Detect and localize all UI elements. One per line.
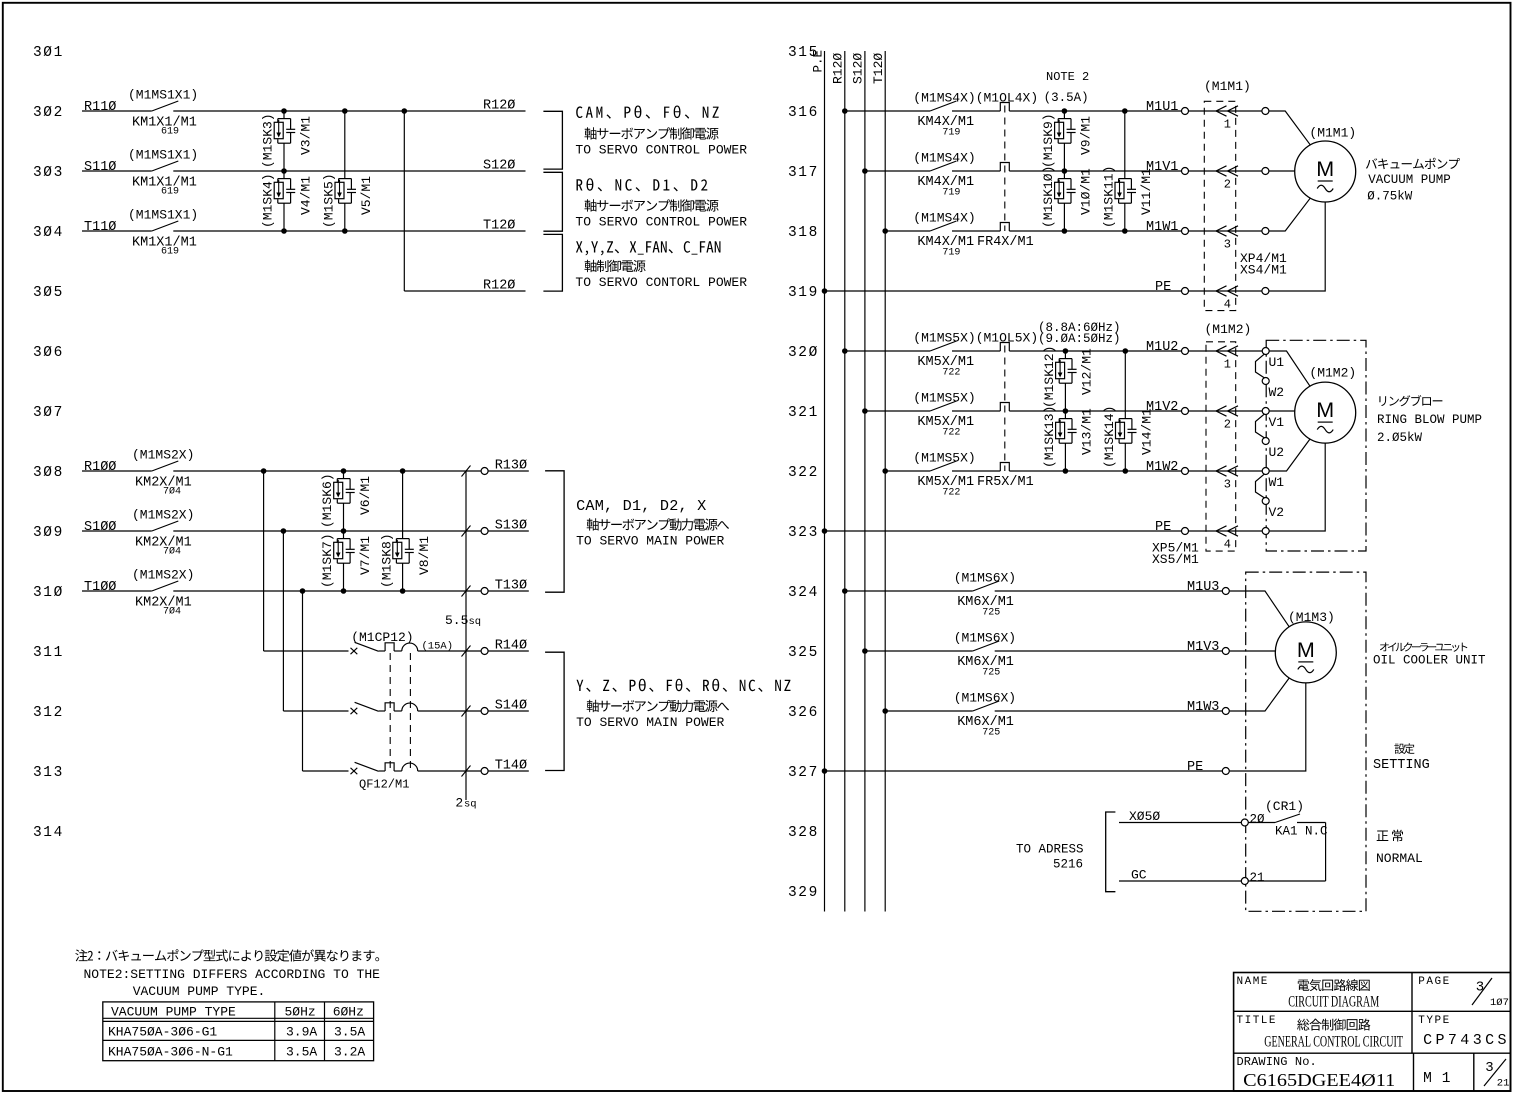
- wire bus to contact row 318: [885, 230, 930, 232]
- svg-text:V1Ø/M1: V1Ø/M1: [1079, 168, 1094, 215]
- row label 315: [788, 45, 819, 61]
- connector pin 2 M1M2: [1188, 406, 1262, 432]
- note 2 text english: [84, 967, 381, 999]
- net label M1U2: [1146, 340, 1178, 355]
- svg-text:3: 3: [1224, 238, 1231, 252]
- svg-text:319: 319: [788, 285, 819, 301]
- wire gauge mark T130: [462, 586, 471, 597]
- svg-text:M1U1: M1U1: [1146, 100, 1178, 115]
- svg-text:T12Ø: T12Ø: [483, 219, 515, 234]
- row label 327: [788, 765, 819, 781]
- contactor contact KM1X1/M1 (T110): [84, 208, 198, 258]
- svg-text:T12Ø: T12Ø: [871, 53, 886, 84]
- title block title cell: [1237, 1015, 1404, 1050]
- svg-text:3.2A: 3.2A: [334, 1045, 365, 1060]
- svg-text:(M1M1): (M1M1): [1204, 79, 1251, 94]
- row label 314: [33, 825, 64, 841]
- wire W1 to motor M1M2: [1269, 439, 1310, 471]
- net label M1V1: [1146, 160, 1178, 175]
- wire breaker S out: [418, 710, 529, 712]
- svg-text:S12Ø: S12Ø: [851, 53, 866, 84]
- svg-text:324: 324: [788, 585, 819, 601]
- wire bus to contact row 316: [845, 110, 930, 112]
- svg-text:M1V3: M1V3: [1187, 640, 1219, 655]
- svg-text:V14/M1: V14/M1: [1140, 408, 1155, 455]
- bracket servo control power group 3: [543, 234, 562, 291]
- junction dots SK9: [1062, 108, 1068, 174]
- svg-text:(M1MS6X): (M1MS6X): [954, 630, 1016, 645]
- row label 309: [33, 525, 64, 541]
- wire overload to terminal row 318: [1009, 230, 1181, 232]
- svg-text:S14Ø: S14Ø: [495, 699, 527, 714]
- svg-text:725: 725: [982, 668, 1000, 679]
- connector pin 2 M1M1: [1188, 166, 1262, 192]
- wire contact to terminal row 325: [995, 650, 1223, 652]
- svg-text:(M1M2): (M1M2): [1309, 366, 1356, 381]
- svg-text:5.5: 5.5: [445, 613, 468, 628]
- svg-text:311: 311: [33, 645, 64, 661]
- svg-text:(M1MS5X): (M1MS5X): [913, 390, 975, 405]
- wire contact to terminal row 326: [995, 710, 1223, 712]
- svg-text:QF12/M1: QF12/M1: [359, 778, 409, 792]
- junction dot bus tap row 320: [842, 348, 848, 354]
- terminal S140: [481, 699, 527, 715]
- contactor contact KM5X/M1 row 322: [913, 450, 1033, 498]
- connector pin 1 M1M2: [1188, 346, 1262, 372]
- wire gauge mark R130: [462, 466, 471, 477]
- wire PE to motor M1M2: [1269, 444, 1325, 532]
- wire PE to motor M1M1: [1269, 202, 1325, 291]
- net label M1V2: [1146, 400, 1178, 415]
- wire drop R100 to breaker: [264, 471, 349, 651]
- junction dot SK7 bottom: [341, 588, 347, 594]
- junction dots SK14: [1123, 348, 1129, 474]
- terminal motor side pin 2 M1M1: [1262, 168, 1269, 175]
- circuit breaker QF12/M1 pole R (M1CP12): [351, 630, 454, 654]
- svg-text:(M1SK5): (M1SK5): [322, 173, 337, 228]
- svg-text:(M1MS6X): (M1MS6X): [954, 690, 1016, 705]
- svg-text:CP743CS: CP743CS: [1423, 1032, 1510, 1049]
- svg-text:725: 725: [982, 608, 1000, 619]
- motor terminal U1 M1M2: [1262, 348, 1284, 371]
- svg-text:31Ø: 31Ø: [33, 585, 64, 601]
- contactor contact KM4X/M1 row 318: [913, 210, 1033, 258]
- svg-text:3Ø5: 3Ø5: [33, 285, 64, 301]
- svg-text:T1ØØ: T1ØØ: [84, 580, 116, 595]
- svg-text:316: 316: [788, 105, 819, 121]
- circuit breaker QF12/M1 pole T: [351, 762, 418, 791]
- svg-text:R12Ø: R12Ø: [831, 53, 846, 84]
- wire gauge mark S140: [462, 706, 471, 717]
- svg-text:M1: M1: [1423, 1071, 1460, 1087]
- svg-text:3Ø6: 3Ø6: [33, 345, 64, 361]
- node R120 label row 302: [483, 99, 515, 114]
- svg-text:PE: PE: [1155, 280, 1171, 295]
- text CAM D1 D2 X servo main power: [576, 497, 729, 549]
- wire PE row 323: [822, 520, 1182, 535]
- svg-text:312: 312: [33, 705, 64, 721]
- wire breaker R out: [418, 650, 529, 652]
- svg-text:Ø.75kW: Ø.75kW: [1367, 190, 1413, 204]
- svg-text:NAME: NAME: [1237, 976, 1269, 988]
- svg-text:1: 1: [1224, 358, 1231, 372]
- wire M1V3 to motor: [1229, 650, 1275, 652]
- svg-text:3: 3: [1485, 1060, 1493, 1076]
- svg-text:W2: W2: [1269, 385, 1285, 400]
- svg-text:719: 719: [942, 248, 960, 259]
- svg-text:323: 323: [788, 525, 819, 541]
- row label 324: [788, 585, 819, 601]
- overload heater element row 322: [1000, 463, 1009, 472]
- wire PE row 319: [822, 280, 1182, 295]
- contactor contact KM1X1/M1 (S110): [84, 148, 198, 198]
- note 2 reference: [1044, 70, 1090, 105]
- svg-text:326: 326: [788, 705, 819, 721]
- row label 305: [33, 285, 64, 301]
- svg-text:DRAWING No.: DRAWING No.: [1237, 1055, 1317, 1069]
- svg-text:(9.ØA:5ØHz): (9.ØA:5ØHz): [1038, 332, 1121, 346]
- svg-text:3Ø8: 3Ø8: [33, 465, 64, 481]
- title block drawing number cell: [1237, 1055, 1510, 1090]
- row label 303: [33, 165, 64, 181]
- svg-text:619: 619: [161, 187, 179, 198]
- surge suppressor M1SK12 V12/M1: [1042, 346, 1095, 411]
- wire M1U1 to motor: [1269, 111, 1311, 145]
- svg-text:TO SERVO CONTROL POWER: TO SERVO CONTROL POWER: [575, 143, 747, 158]
- net label M1V3: [1187, 640, 1219, 655]
- terminal R140: [481, 639, 527, 655]
- enclosure M1M2 ring blow pump: [1266, 340, 1366, 551]
- wire gauge mark S130: [462, 526, 471, 537]
- svg-text:3Ø1: 3Ø1: [33, 45, 64, 61]
- contactor contact KM4X/M1 row 317: [913, 150, 975, 198]
- terminal M1U1: [1182, 108, 1189, 115]
- terminal T140: [481, 759, 527, 775]
- row label 322: [788, 465, 819, 481]
- row label 323: [788, 525, 819, 541]
- wire drop S100 to breaker: [283, 531, 348, 711]
- svg-text:V8/M1: V8/M1: [417, 536, 432, 575]
- svg-text:T13Ø: T13Ø: [495, 579, 527, 594]
- svg-text:2.Ø5kW: 2.Ø5kW: [1377, 431, 1423, 445]
- wire R130 tail: [488, 470, 529, 472]
- surge suppressor M1SK10 V10/M1: [1041, 166, 1094, 231]
- svg-text:M: M: [1316, 157, 1334, 181]
- svg-text:XS4/M1: XS4/M1: [1240, 262, 1287, 277]
- row label 318: [788, 225, 819, 241]
- bracket to address 5216: [1016, 812, 1115, 892]
- junction dots SK12: [1063, 348, 1069, 414]
- contactor contact KM1X1/M1 (R110): [84, 88, 198, 138]
- svg-text:719: 719: [942, 128, 960, 139]
- wire R110 to R120: [173, 110, 525, 112]
- contactor contact KM6X/M1 row 324: [954, 570, 1016, 618]
- wire T110: [82, 230, 152, 232]
- motor terminal U2 M1M2: [1262, 438, 1284, 461]
- svg-text:VACUUM PUMP TYPE: VACUUM PUMP TYPE: [111, 1005, 236, 1020]
- text normal: [1376, 830, 1423, 866]
- bus R120: [831, 51, 846, 912]
- surge suppressor M1SK6 V6/M1: [320, 471, 373, 531]
- row label 317: [788, 165, 819, 181]
- motor terminal W2 M1M2: [1262, 378, 1284, 401]
- surge suppressor M1SK7 V7/M1: [320, 531, 373, 591]
- svg-text:327: 327: [788, 765, 819, 781]
- row label 310: [33, 585, 64, 601]
- svg-text:3Ø4: 3Ø4: [33, 225, 64, 241]
- wire V1 to motor M1M2: [1269, 410, 1295, 412]
- svg-text:V4/M1: V4/M1: [298, 176, 313, 215]
- svg-text:(M1MS2X): (M1MS2X): [132, 448, 194, 463]
- contactor contact KM2X/M1 (R100): [84, 448, 194, 498]
- text R NC D1 D2 servo control power: [575, 178, 747, 229]
- svg-text:KHA75ØA-3Ø6-G1: KHA75ØA-3Ø6-G1: [108, 1025, 217, 1040]
- svg-text:(M1MS5X): (M1MS5X): [913, 450, 975, 465]
- svg-text:(M1MS4X): (M1MS4X): [913, 210, 975, 225]
- overload heater element row 317: [1000, 163, 1009, 172]
- bracket servo control power group 1: [543, 111, 562, 169]
- svg-text:VACUUM PUMP TYPE.: VACUUM PUMP TYPE.: [133, 984, 266, 999]
- svg-text:(M1CP12): (M1CP12): [351, 630, 413, 645]
- svg-text:3Ø9: 3Ø9: [33, 525, 64, 541]
- row label 304: [33, 225, 64, 241]
- wire bus to contact row 321: [865, 410, 930, 412]
- svg-text:3: 3: [1476, 980, 1484, 996]
- net label M1U3: [1187, 580, 1219, 595]
- terminal M1W1: [1182, 228, 1189, 235]
- wire contact to overload row 317: [952, 170, 1000, 172]
- circuit breaker QF12/M1 pole S: [351, 702, 418, 714]
- svg-text:R12Ø: R12Ø: [483, 99, 515, 114]
- wire S100 to terminal: [173, 530, 481, 532]
- connector pin 4 M1M1: [1188, 286, 1262, 312]
- wire R100 to terminal: [173, 470, 481, 472]
- svg-text:3.9A: 3.9A: [286, 1025, 317, 1040]
- junction dot R120 drop: [402, 108, 408, 114]
- row label 321: [788, 405, 819, 421]
- svg-text:(M1MS1X1): (M1MS1X1): [128, 208, 198, 223]
- title block frame: [1234, 973, 1511, 1092]
- svg-text:FR4X/M1: FR4X/M1: [977, 235, 1034, 250]
- junction dot bus tap row 325: [862, 648, 868, 654]
- svg-text:725: 725: [982, 728, 1000, 739]
- wire drop T100 to breaker: [303, 591, 349, 771]
- svg-text:V5/M1: V5/M1: [359, 176, 374, 215]
- svg-text:314: 314: [33, 825, 64, 841]
- svg-text:3Ø7: 3Ø7: [33, 405, 64, 421]
- surge suppressor M1SK8 V8/M1 (R-T): [379, 471, 432, 591]
- svg-text:KA1 N.C: KA1 N.C: [1275, 825, 1328, 839]
- motor terminal W1 M1M2: [1262, 468, 1284, 491]
- junction dot bus tap row 326: [882, 708, 888, 714]
- breaker linkage dashed: [390, 653, 410, 769]
- svg-text:M1W3: M1W3: [1187, 700, 1219, 715]
- svg-text:V9/M1: V9/M1: [1079, 116, 1094, 155]
- wire R120 drop to row 305: [404, 111, 525, 291]
- svg-text:PAGE: PAGE: [1418, 976, 1450, 988]
- svg-text:7Ø4: 7Ø4: [163, 546, 181, 558]
- junction dots SK3: [281, 108, 287, 174]
- terminal M1V1: [1182, 168, 1189, 175]
- wire gauge line 5.5sq / 2sq: [445, 471, 481, 811]
- row label 301: [33, 45, 64, 61]
- svg-text:R13Ø: R13Ø: [495, 459, 527, 474]
- svg-text:M: M: [1316, 398, 1334, 422]
- text oil cooler unit: [1373, 642, 1486, 667]
- svg-text:TITLE: TITLE: [1237, 1015, 1278, 1027]
- junction dots SK8: [400, 468, 406, 594]
- current setting labels M1M2: [1038, 321, 1121, 346]
- svg-text:(M1MS2X): (M1MS2X): [132, 508, 194, 523]
- svg-text:325: 325: [788, 645, 819, 661]
- svg-text:U1: U1: [1269, 355, 1285, 370]
- svg-text:2Ø: 2Ø: [1250, 813, 1266, 827]
- row label 311: [33, 645, 64, 661]
- svg-text:(M1SK14): (M1SK14): [1102, 406, 1117, 468]
- svg-text:(M1MS2X): (M1MS2X): [132, 568, 194, 583]
- svg-text:1: 1: [1224, 118, 1231, 132]
- motor M1M3 oil cooler: [1275, 610, 1336, 683]
- overload linkage dashed M1OL4X: [1004, 106, 1006, 232]
- svg-text:21: 21: [1250, 871, 1265, 885]
- wire bus to contact row 325: [865, 650, 973, 652]
- text vacuum pump: [1366, 158, 1460, 204]
- svg-text:P.E: P.E: [811, 50, 825, 73]
- svg-text:NOTE 2: NOTE 2: [1046, 70, 1089, 84]
- connector XP5/M1 XS5/M1 dashed box: [1152, 322, 1251, 567]
- wire contact to overload row 316: [952, 110, 1000, 112]
- node T120 label row 304: [483, 219, 515, 234]
- svg-text:VACUUM PUMP: VACUUM PUMP: [1368, 173, 1451, 187]
- svg-text:R11Ø: R11Ø: [84, 100, 116, 115]
- svg-text:3: 3: [1224, 478, 1231, 492]
- svg-text:TO SERVO CONTORL POWER: TO SERVO CONTORL POWER: [575, 275, 747, 290]
- svg-text:V1: V1: [1269, 415, 1285, 430]
- wire T130 tail: [488, 590, 529, 592]
- row label 319: [788, 285, 819, 301]
- winding jumper M1M2 row 322: [1256, 474, 1265, 498]
- wire S100: [82, 530, 152, 532]
- wire contact to overload row 322: [952, 470, 1000, 472]
- svg-text:3Ø3: 3Ø3: [33, 165, 64, 181]
- wire overload to terminal row 316: [1009, 110, 1181, 112]
- svg-text:(M1M2): (M1M2): [1205, 322, 1252, 337]
- svg-text:T11Ø: T11Ø: [84, 220, 116, 235]
- row label 326: [788, 705, 819, 721]
- wire T110 to T120: [173, 230, 525, 232]
- bracket servo main power group 2: [545, 652, 564, 770]
- svg-text:7Ø4: 7Ø4: [163, 486, 181, 498]
- svg-text:719: 719: [942, 188, 960, 199]
- svg-text:32Ø: 32Ø: [788, 345, 819, 361]
- terminal M1V3: [1222, 648, 1229, 655]
- contactor contact KM6X/M1 row 325: [954, 630, 1016, 678]
- svg-text:(M1M3): (M1M3): [1288, 610, 1335, 625]
- junction dot bus tap row 322: [882, 468, 888, 474]
- junction dot bus tap row 316: [842, 108, 848, 114]
- terminal M1U2: [1182, 348, 1189, 355]
- svg-text:sq: sq: [469, 616, 482, 628]
- svg-text:(M1SK7): (M1SK7): [320, 533, 335, 588]
- bracket servo control power group 2: [543, 172, 562, 231]
- row label 329: [788, 885, 819, 901]
- wire contact to terminal row 324: [995, 590, 1223, 592]
- svg-text:M: M: [1297, 638, 1315, 662]
- svg-text:M1W1: M1W1: [1146, 220, 1178, 235]
- row label 306: [33, 345, 64, 361]
- svg-text:3.5A: 3.5A: [334, 1025, 365, 1040]
- junction dot bus tap row 317: [862, 168, 868, 174]
- motor M1M1 vacuum pump: [1295, 126, 1357, 203]
- wire T100: [82, 590, 152, 592]
- wire bus to contact row 322: [885, 470, 930, 472]
- connector pin 4 M1M2: [1188, 526, 1262, 552]
- svg-text:GENERAL CONTROL CIRCUIT: GENERAL CONTROL CIRCUIT: [1264, 1034, 1403, 1051]
- svg-text:619: 619: [161, 127, 179, 138]
- contactor contact KM4X/M1 row 316: [913, 90, 1038, 138]
- svg-text:(M1MS4X): (M1MS4X): [913, 150, 975, 165]
- svg-text:XØ5Ø: XØ5Ø: [1129, 809, 1160, 824]
- svg-text:sq: sq: [464, 799, 477, 811]
- contactor contact KM2X/M1 (T100): [84, 568, 194, 618]
- junction dot bus tap row 321: [862, 408, 868, 414]
- svg-text:SETTING: SETTING: [1373, 758, 1430, 773]
- connector pin 1 M1M1: [1188, 106, 1262, 132]
- overload heater element row 318: [1000, 223, 1009, 232]
- svg-text:CAM, D1, D2, X: CAM, D1, D2, X: [576, 497, 706, 515]
- terminal M1V2: [1182, 408, 1189, 415]
- node R120 label row 305: [483, 279, 515, 294]
- connector pin 3 M1M2: [1188, 466, 1262, 492]
- svg-text:M1U2: M1U2: [1146, 340, 1178, 355]
- contactor contact KM5X/M1 row 320: [913, 330, 1038, 378]
- overload heater element row 321: [1000, 403, 1009, 412]
- svg-text:619: 619: [161, 247, 179, 258]
- svg-text:1Ø7: 1Ø7: [1490, 997, 1509, 1009]
- net label M1W3: [1187, 700, 1219, 715]
- svg-text:V2: V2: [1269, 505, 1285, 520]
- junction dot drop S: [281, 528, 287, 534]
- wire GC: [1119, 868, 1242, 883]
- terminal M1W3: [1222, 708, 1229, 715]
- svg-text:V11/M1: V11/M1: [1139, 168, 1154, 215]
- wire M1W3 to motor: [1229, 678, 1289, 711]
- svg-text:U2: U2: [1269, 445, 1285, 460]
- row label 320: [788, 345, 819, 361]
- row label 307: [33, 405, 64, 421]
- wire S110 to S120: [173, 170, 525, 172]
- svg-text:722: 722: [942, 428, 960, 439]
- row label 316: [788, 105, 819, 121]
- svg-text:CIRCUIT DIAGRAM: CIRCUIT DIAGRAM: [1288, 994, 1379, 1011]
- terminal T130: [481, 579, 527, 595]
- connector XP4/M1 XS4/M1 dashed box: [1204, 79, 1287, 311]
- wire bus to contact row 324: [845, 590, 973, 592]
- wire contact to overload row 320: [952, 350, 1000, 352]
- svg-text:TO ADRESS: TO ADRESS: [1016, 843, 1084, 857]
- svg-text:R14Ø: R14Ø: [495, 639, 527, 654]
- svg-text:V13/M1: V13/M1: [1080, 408, 1095, 455]
- wire PE row 327: [822, 760, 1223, 775]
- contactor contact KM6X/M1 row 326: [954, 690, 1016, 738]
- wire M1W1 to motor: [1269, 198, 1311, 231]
- svg-text:(M1MS1X1): (M1MS1X1): [128, 88, 198, 103]
- bracket servo main power group 1: [545, 471, 564, 592]
- svg-text:C6165DGEE4Ø11: C6165DGEE4Ø11: [1243, 1070, 1395, 1090]
- junction dot bus tap row 318: [882, 228, 888, 234]
- wire PE to motor M1M3: [1229, 683, 1306, 771]
- svg-text:322: 322: [788, 465, 819, 481]
